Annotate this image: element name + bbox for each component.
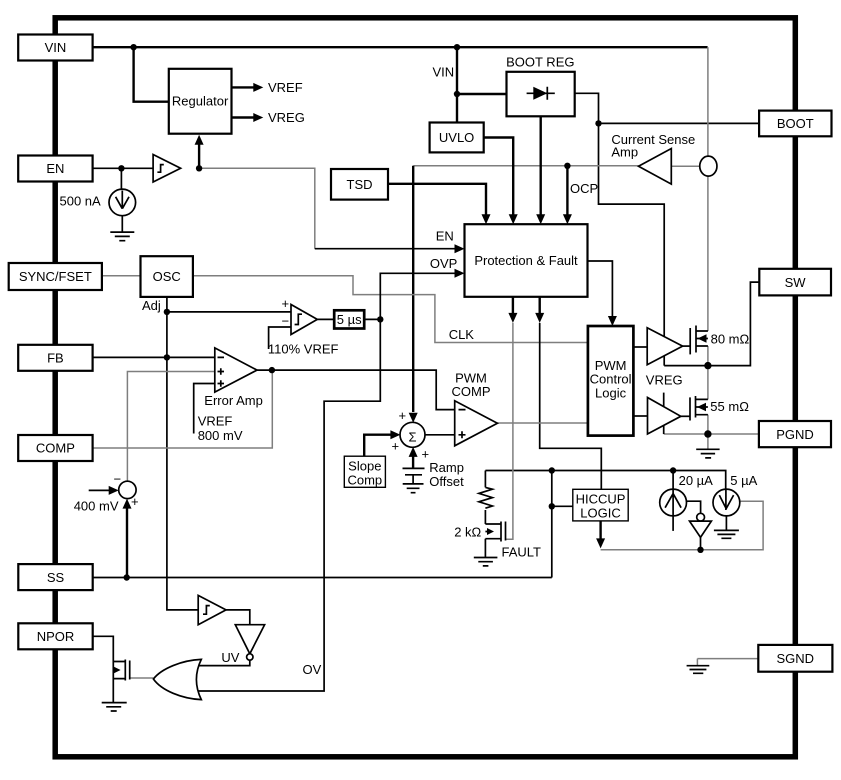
wire error amp plus input from SS clamp (gray) bbox=[127, 372, 214, 482]
wire current sense amp input from sensor bbox=[671, 165, 700, 167]
svg-text:LOGIC: LOGIC bbox=[580, 505, 620, 520]
arrowhead EN into Protection bbox=[455, 244, 465, 253]
label comparator minus bbox=[282, 314, 290, 329]
wire resistor to FAULT FET drain bbox=[484, 510, 486, 524]
svg-text:VREG: VREG bbox=[268, 110, 305, 125]
wire OVP down to OV logic bbox=[198, 319, 380, 691]
wire FB node to 110% comparator bbox=[167, 311, 291, 313]
high-side power FET 80mOhm bbox=[690, 326, 708, 355]
wire soft-start net to 5uA source bbox=[673, 471, 726, 490]
pin SGND bbox=[758, 645, 832, 672]
wire soft-start net rail bbox=[485, 470, 673, 472]
UV inverter with bubble bbox=[235, 625, 264, 661]
wire PWM comparator output (gray) bbox=[497, 422, 588, 424]
wire OVP into Protection bbox=[380, 273, 455, 319]
low-side power FET 55mOhm bbox=[690, 396, 708, 421]
label Error Amp bbox=[204, 393, 263, 408]
label 55 mOhm bbox=[710, 399, 749, 414]
wire OSC Adj to FB node bbox=[166, 297, 168, 358]
block HICCUP LOGIC bbox=[573, 489, 628, 521]
arrowhead UVLO bbox=[509, 214, 518, 224]
wire ramp offset to sigma bbox=[412, 456, 414, 468]
svg-text:Comp: Comp bbox=[347, 472, 382, 487]
svg-text:Slope: Slope bbox=[348, 458, 381, 473]
wire NPOR FET gate from OR (gray) bbox=[130, 677, 154, 679]
svg-text:BOOT REG: BOOT REG bbox=[506, 55, 574, 70]
svg-text:NPOR: NPOR bbox=[37, 629, 75, 644]
pin COMP bbox=[18, 435, 92, 461]
label BOOT REG bbox=[506, 55, 574, 70]
svg-text:BOOT: BOOT bbox=[777, 116, 814, 131]
diode D1 in BOOT REG bbox=[527, 87, 555, 100]
svg-text:+: + bbox=[392, 439, 400, 454]
arrowhead slope comp bbox=[390, 430, 400, 439]
wire PWM logic to high-side driver bbox=[633, 346, 647, 348]
svg-text:SGND: SGND bbox=[777, 651, 815, 666]
svg-text:FB: FB bbox=[47, 351, 64, 366]
wire BOOT node to BOOT pin bbox=[599, 122, 760, 124]
wire 20uA source leads bbox=[672, 471, 674, 531]
label Ramp bbox=[429, 460, 464, 475]
wire EN pulldown current source tap bbox=[120, 168, 122, 189]
label comparator plus bbox=[282, 296, 290, 311]
svg-text:COMP: COMP bbox=[452, 384, 491, 399]
wire EN buffer output to regulator enable bbox=[198, 145, 200, 169]
pin SYNC/FSET bbox=[9, 263, 102, 290]
svg-text:HICCUP: HICCUP bbox=[576, 491, 626, 506]
svg-text:+: + bbox=[131, 494, 139, 509]
svg-text:Regulator: Regulator bbox=[172, 94, 229, 109]
svg-text:110% VREF: 110% VREF bbox=[268, 342, 339, 357]
arrowhead ramp offset bbox=[409, 447, 418, 457]
svg-text:5 µs: 5 µs bbox=[337, 312, 362, 327]
svg-text:−: − bbox=[282, 314, 290, 329]
wire SGND pin to ground (gray) bbox=[697, 658, 758, 660]
svg-text:VREF: VREF bbox=[198, 414, 233, 429]
label OCP bbox=[570, 181, 598, 196]
wire EN pin to schmitt buffer bbox=[93, 167, 154, 169]
svg-text:OVP: OVP bbox=[430, 256, 457, 271]
ramp offset capacitor and ground bbox=[403, 468, 425, 492]
svg-text:Offset: Offset bbox=[429, 474, 464, 489]
current source 20uA bbox=[660, 489, 687, 516]
svg-text:OSC: OSC bbox=[153, 269, 181, 284]
label EN net bbox=[436, 229, 454, 244]
wire BOOT REG status to Protection bbox=[540, 116, 542, 214]
wire soft-start node to HICCUP LOGIC bbox=[552, 505, 573, 507]
svg-text:Protection & Fault: Protection & Fault bbox=[474, 253, 578, 268]
svg-text:VREG: VREG bbox=[646, 373, 683, 388]
wire VREG output arrow bbox=[232, 113, 264, 122]
wire COMP pin to error amp output (gray) bbox=[93, 370, 273, 448]
label sigma plus left bbox=[392, 439, 400, 454]
block OSC bbox=[141, 256, 193, 297]
svg-text:OCP: OCP bbox=[570, 181, 598, 196]
svg-text:EN: EN bbox=[436, 229, 454, 244]
arrowhead OVP bbox=[455, 269, 465, 278]
ground below FAULT FET bbox=[474, 558, 498, 566]
wire SW node to low-side FET drain bbox=[707, 366, 709, 400]
wire 5uA source to ground bbox=[725, 516, 727, 531]
block Regulator bbox=[169, 69, 232, 134]
wire 110% VREF reference stub bbox=[269, 327, 291, 349]
wire sigma output to PWM comparator bbox=[425, 434, 455, 436]
svg-text:EN: EN bbox=[46, 161, 64, 176]
label 500 nA bbox=[59, 194, 101, 209]
svg-text:VIN: VIN bbox=[433, 65, 455, 80]
wire slope comp to sigma bbox=[364, 435, 391, 457]
wire summing arrow into sigma bbox=[409, 413, 418, 423]
FAULT discharge FET bbox=[485, 522, 505, 542]
wire NPOR pin to open-drain FET bbox=[93, 636, 114, 702]
svg-text:Ramp: Ramp bbox=[429, 460, 464, 475]
svg-text:Error Amp: Error Amp bbox=[204, 393, 263, 408]
label VREF output bbox=[268, 80, 303, 95]
UV schmitt buffer bbox=[198, 595, 226, 624]
arrowhead OCP bbox=[563, 214, 572, 224]
svg-text:CLK: CLK bbox=[449, 327, 475, 342]
svg-text:500 nA: 500 nA bbox=[59, 194, 101, 209]
label 400 mV bbox=[74, 499, 119, 514]
OR gate (NPOR logic) bbox=[153, 659, 201, 699]
low-side gate driver bbox=[648, 398, 681, 435]
block UVLO bbox=[430, 123, 484, 153]
wire EN into Protection bbox=[315, 248, 455, 250]
wire PGND node to ground bbox=[707, 434, 709, 449]
pin SW bbox=[759, 269, 831, 296]
label PWM COMP line1 bbox=[455, 371, 487, 386]
block Protection and Fault bbox=[465, 224, 588, 297]
label 110% VREF bbox=[268, 342, 339, 357]
wire 20uA to inverter bubble bbox=[686, 501, 700, 513]
arrowhead HICCUP output bbox=[596, 538, 605, 548]
svg-text:PGND: PGND bbox=[776, 427, 814, 442]
arrowhead Protection bottom 2 bbox=[535, 313, 544, 323]
wire TSD output to Protection bbox=[388, 184, 486, 215]
arrowhead regulator enable bbox=[195, 135, 204, 145]
block PWM Control Logic bbox=[588, 326, 634, 436]
svg-text:5 µA: 5 µA bbox=[730, 473, 757, 488]
wire 5uA arrow stem bbox=[725, 489, 727, 511]
wire SYNC/FSET to OSC (gray) bbox=[102, 275, 141, 277]
wire error amp output to PWM comparator bbox=[257, 370, 455, 410]
PWM comparator bbox=[455, 401, 498, 446]
svg-text:VIN: VIN bbox=[45, 40, 67, 55]
svg-text:400 mV: 400 mV bbox=[74, 499, 119, 514]
pin FB bbox=[18, 345, 92, 371]
wire inverter output to discharge net bbox=[700, 537, 702, 549]
svg-text:Adj: Adj bbox=[142, 298, 161, 313]
svg-text:SYNC/FSET: SYNC/FSET bbox=[19, 269, 92, 284]
wire VIN to BOOT REG input bbox=[457, 93, 507, 95]
block 5us deglitch bbox=[334, 310, 364, 328]
hiccup inverter with bubble bbox=[690, 513, 712, 537]
ground below 5uA bbox=[714, 530, 739, 538]
label 400mV plus bbox=[131, 494, 139, 509]
wire SS rail up to soft-start node bbox=[551, 471, 553, 578]
wire BOOT node down to SW node bbox=[599, 123, 665, 365]
block TSD bbox=[331, 169, 388, 200]
wire VIN gray drop to current sensor bbox=[707, 47, 709, 156]
wire VREG supply stub to low-side driver bbox=[663, 393, 665, 434]
label sigma plus bottom bbox=[422, 447, 430, 462]
wire SS pin rail bbox=[93, 577, 552, 579]
svg-text:20 µA: 20 µA bbox=[679, 473, 714, 488]
wire UVLO output to Protection bbox=[484, 138, 514, 215]
NPOR open-drain FET bbox=[113, 660, 130, 681]
current source 5uA bbox=[713, 489, 740, 516]
wire low-side FET source to PGND node bbox=[707, 415, 709, 434]
arrowhead BOOT REG status bbox=[536, 214, 545, 224]
wire EN signal routing (gray) bbox=[199, 168, 315, 248]
ground below 500nA bbox=[110, 232, 134, 241]
svg-text:VREF: VREF bbox=[268, 80, 303, 95]
high-side gate driver bbox=[647, 328, 682, 365]
label 400mV minus bbox=[114, 472, 122, 487]
wire current sense signal to summing node bbox=[412, 166, 414, 412]
label VIN net bbox=[433, 65, 455, 80]
label VREF 800mV line2 bbox=[198, 428, 243, 443]
wire current sense amp output (gray) bbox=[413, 165, 638, 167]
label CLK bbox=[449, 327, 475, 342]
label VREF 800mV line1 bbox=[198, 414, 233, 429]
label 20 uA bbox=[679, 473, 714, 488]
svg-text:FAULT: FAULT bbox=[502, 545, 542, 560]
label VREG output bbox=[268, 110, 305, 125]
svg-text:+: + bbox=[282, 296, 290, 311]
arrowhead into 400mV summer bbox=[109, 486, 119, 495]
wire Protection to PWM control logic bbox=[588, 261, 613, 316]
wire high-side driver to gate bbox=[683, 345, 691, 347]
sigma summing junction bbox=[400, 422, 425, 447]
label 5 uA bbox=[730, 473, 757, 488]
wire HICCUP discharge net (gray) bbox=[601, 501, 764, 550]
svg-text:UVLO: UVLO bbox=[439, 130, 474, 145]
current source 500nA bbox=[109, 189, 136, 216]
label 80 mOhm bbox=[711, 332, 750, 347]
pin EN bbox=[18, 156, 92, 182]
block Slope Comp bbox=[344, 456, 385, 487]
svg-text:55 mΩ: 55 mΩ bbox=[710, 399, 749, 414]
wire FB pin to error amp bbox=[93, 356, 215, 358]
svg-text:Amp: Amp bbox=[611, 145, 638, 160]
wire VREF 800mV stub bbox=[194, 384, 215, 434]
wire 500nA source to ground bbox=[121, 216, 123, 232]
label FAULT bbox=[502, 545, 542, 560]
error amp U-EA bbox=[215, 348, 257, 392]
ground below NPOR FET bbox=[102, 703, 127, 711]
arrowhead Protection bottom 1 bbox=[508, 313, 517, 323]
wire VIN rail bbox=[93, 46, 708, 48]
wire Protection bottom arrow 1 bbox=[512, 297, 514, 313]
schmitt buffer EN bbox=[153, 155, 181, 183]
wire comparator output to 5us filter bbox=[317, 318, 334, 320]
wire SS to 400mV summer bbox=[126, 508, 128, 578]
wire Protection bottom arrow 2 bbox=[539, 297, 541, 313]
wire high-side FET source to SW node bbox=[707, 346, 709, 366]
resistor 2k bbox=[479, 487, 493, 508]
400 mV offset summer bbox=[119, 481, 136, 498]
wire VIN drop to BOOT REG / UVLO bbox=[456, 47, 458, 122]
wire 400mV offset input arrow line bbox=[89, 489, 110, 491]
svg-text:SS: SS bbox=[47, 570, 65, 585]
wire FAULT FET source to ground bbox=[484, 539, 486, 558]
label OV bbox=[303, 662, 322, 677]
wire OSC output to CLK (gray) bbox=[193, 276, 588, 343]
current sense amp triangle bbox=[639, 149, 672, 185]
arrowhead SS into summer bbox=[123, 499, 132, 509]
pin SS bbox=[18, 564, 92, 590]
label sigma plus top bbox=[399, 408, 407, 423]
label 2 kOhm bbox=[454, 525, 481, 540]
wire low-side driver to gate bbox=[681, 415, 690, 417]
wire UV buffer output to inverter bbox=[226, 610, 250, 625]
wire resistor branch to soft-start net bbox=[484, 471, 486, 488]
svg-text:+: + bbox=[422, 447, 430, 462]
wire PWM logic to low-side driver bbox=[633, 415, 647, 417]
svg-text:Logic: Logic bbox=[595, 385, 627, 400]
wire PGND node rail to PGND pin bbox=[664, 433, 760, 435]
arrowhead TSD bbox=[482, 214, 491, 224]
label Amp bbox=[611, 145, 638, 160]
wire OCP into Protection block bbox=[566, 166, 568, 215]
svg-text:−: − bbox=[114, 472, 122, 487]
wire SGND ground tick bbox=[696, 659, 698, 666]
svg-text:800 mV: 800 mV bbox=[198, 428, 243, 443]
svg-text:COMP: COMP bbox=[36, 441, 75, 456]
pin NPOR bbox=[18, 623, 92, 649]
wire Protection to HICCUP LOGIC bbox=[540, 323, 602, 489]
wire VIN to Regulator bbox=[134, 47, 170, 101]
svg-text:Σ: Σ bbox=[408, 429, 416, 444]
wire 5us output node bbox=[364, 318, 380, 320]
arrowhead into PWM control logic bbox=[608, 316, 617, 326]
wire inverter output UV to OR gate bbox=[198, 660, 250, 665]
label PWM COMP line2 bbox=[452, 384, 491, 399]
wire current sensor to high-side FET drain bbox=[707, 176, 709, 331]
svg-text:2 kΩ: 2 kΩ bbox=[454, 525, 481, 540]
wire Protection FAULT output (gray) bbox=[506, 323, 513, 539]
svg-text:80 mΩ: 80 mΩ bbox=[711, 332, 750, 347]
label UV bbox=[221, 650, 239, 665]
current sensor element bbox=[700, 156, 717, 176]
svg-text:UV: UV bbox=[221, 650, 239, 665]
svg-text:OV: OV bbox=[303, 662, 322, 677]
label Current Sense bbox=[611, 132, 695, 147]
wire HICCUP LOGIC output arrow bbox=[599, 521, 601, 539]
wire VREF output arrow bbox=[232, 83, 264, 92]
label VREG driver supply bbox=[646, 373, 683, 388]
label Adj bbox=[142, 298, 161, 313]
ground below PGND node bbox=[696, 449, 719, 458]
wire SW node rail to SW pin bbox=[664, 282, 759, 366]
pin VIN bbox=[18, 35, 92, 61]
label Offset bbox=[429, 474, 464, 489]
ground at SGND bbox=[687, 666, 710, 674]
svg-text:+: + bbox=[399, 408, 407, 423]
wire BOOT REG output to BOOT node bbox=[575, 93, 599, 123]
pin BOOT bbox=[759, 111, 831, 137]
label OVP net bbox=[430, 256, 457, 271]
wire FB sense down to UV buffer bbox=[167, 357, 198, 610]
110% VREF comparator bbox=[291, 305, 317, 335]
pin PGND bbox=[759, 421, 831, 447]
svg-text:SW: SW bbox=[785, 275, 807, 290]
block BOOT REG bbox=[507, 72, 575, 117]
svg-text:TSD: TSD bbox=[347, 177, 373, 192]
